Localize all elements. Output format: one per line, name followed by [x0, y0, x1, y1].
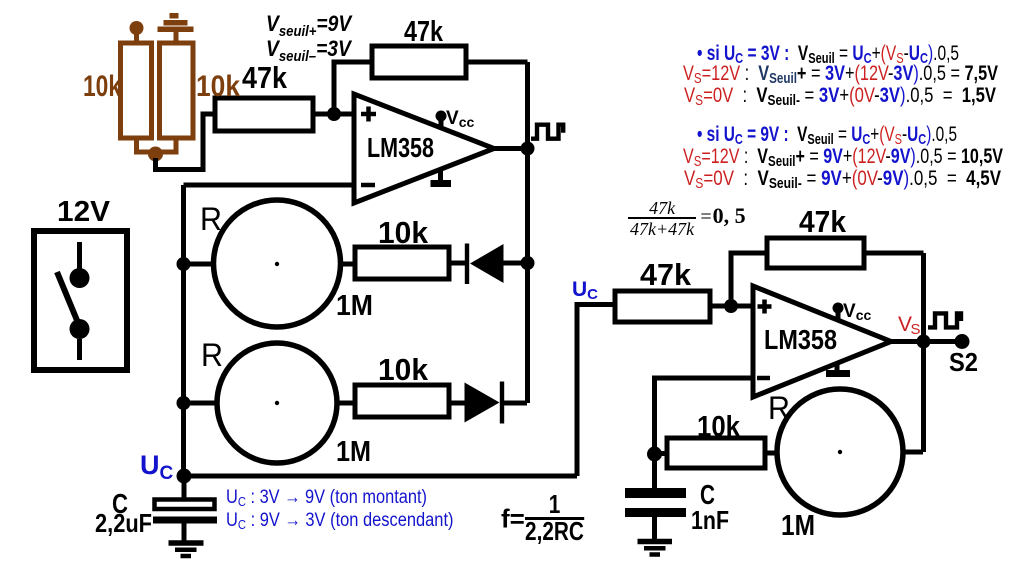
wire R6 to D1 — [449, 261, 467, 266]
svg-text:10k: 10k — [83, 70, 121, 103]
svg-text:10k: 10k — [697, 411, 741, 443]
wire R7 to R8 — [337, 401, 355, 406]
svg-text:UC: UC — [140, 450, 174, 484]
node at C2 top — [647, 447, 662, 462]
wire U2 output to S2 — [891, 339, 962, 344]
label Vseuil thresholds of U1 — [266, 11, 351, 61]
node U2 + input — [724, 299, 738, 313]
svg-text:47k: 47k — [640, 257, 692, 292]
svg-text:1nF: 1nF — [691, 505, 729, 535]
terminal S2 — [955, 334, 970, 349]
power symbol +12V on P2 — [158, 13, 194, 32]
U1 Vcc pin — [436, 111, 447, 129]
brown wire joining P1 and P2 bottoms — [134, 147, 179, 162]
capacitor C1 2,2uF — [153, 483, 217, 542]
resistor R10 47k (positive feedback) — [767, 238, 864, 268]
U1 ground pin — [431, 168, 452, 184]
formula 47k/(47k+47k)=0,5 — [628, 201, 746, 237]
svg-text:1M: 1M — [336, 436, 371, 468]
svg-text:Vcc: Vcc — [446, 108, 474, 130]
wire U2 - input down to node — [655, 378, 754, 454]
wire node to feedback resistor R4 — [334, 62, 372, 114]
wire R5 to R6 — [339, 262, 355, 267]
wire R9 to U2 + input — [710, 304, 753, 309]
svg-text:LM358: LM358 — [764, 324, 837, 355]
node at U2 output — [917, 335, 931, 349]
svg-text:R: R — [200, 201, 222, 237]
node left rail row1 — [177, 257, 191, 271]
resistor R9 47k — [615, 291, 710, 322]
output rail of U2 — [921, 253, 926, 452]
svg-text:2,2uF: 2,2uF — [95, 508, 152, 538]
wire rail to R7 — [184, 401, 218, 406]
potentiometer P1 10k (brown) — [121, 21, 152, 152]
svg-text:10k: 10k — [196, 70, 240, 103]
svg-text:LM358: LM358 — [367, 132, 434, 163]
potentiometer R5 1M — [214, 200, 341, 327]
svg-text:47k: 47k — [404, 16, 444, 48]
diode D2 — [449, 382, 527, 424]
svg-text:R: R — [201, 337, 223, 373]
node at U1 + input — [327, 107, 341, 121]
wire Uc bottom run — [184, 474, 577, 479]
potentiometer R7 1M — [217, 343, 337, 463]
square wave icon at U1 output — [531, 125, 563, 139]
resistor R11 10k — [667, 438, 765, 468]
wire node to R10 — [731, 253, 767, 306]
wire R3 to U1 + input — [313, 112, 354, 117]
svg-text:S2: S2 — [949, 347, 978, 377]
annotation ton montant / descendant (blue) — [226, 488, 427, 511]
wire U1 - input to left rail — [184, 183, 355, 188]
svg-text:1M: 1M — [781, 510, 815, 542]
wire Uc rising to R9 — [577, 305, 615, 477]
svg-text:R: R — [768, 390, 790, 426]
wire R12 to output rail — [903, 450, 923, 455]
formula block si Uc=3V (right top) — [697, 43, 959, 64]
node at U1 output — [521, 142, 535, 156]
wire node to R11 — [655, 451, 668, 456]
U2 Vcc pin — [833, 303, 844, 321]
svg-text:UC: UC — [572, 278, 598, 303]
wire U1 output to node — [494, 146, 527, 151]
svg-text:12V: 12V — [57, 196, 111, 228]
potentiometer R12 1M — [777, 389, 903, 515]
svg-text:47k: 47k — [242, 60, 288, 95]
12V switch box — [34, 231, 127, 370]
diode D1 — [467, 244, 527, 285]
formula f=1/(2,2RC) — [501, 495, 599, 542]
node left rail row2 — [177, 396, 191, 410]
svg-text:10k: 10k — [378, 352, 429, 387]
node Uc — [177, 469, 192, 484]
resistor R4 47k (positive feedback) — [372, 46, 466, 78]
resistor R6 10k — [355, 247, 449, 279]
svg-text:47k: 47k — [799, 204, 847, 239]
wire R10 to output rail — [864, 251, 924, 256]
capacitor C2 1nF — [625, 454, 686, 540]
output rail of U1 (vertical) — [525, 62, 530, 403]
wire rail to R5 — [184, 262, 216, 267]
square wave icon at U2 output — [928, 313, 961, 327]
formula block si Uc=9V — [697, 124, 957, 145]
node rail row1 — [521, 256, 535, 270]
svg-text:VS: VS — [898, 313, 921, 338]
U2 ground pin — [826, 362, 850, 374]
svg-text:Vcc: Vcc — [843, 301, 871, 323]
potentiometer P2 10k (brown) — [160, 31, 194, 152]
resistor R3 47k — [215, 98, 313, 131]
op-amp U1 LM358 — [354, 94, 494, 203]
ground below C1 — [169, 543, 204, 556]
wire R4 to U1 output rail — [466, 60, 528, 65]
svg-text:10k: 10k — [378, 215, 429, 250]
wire R11 to R12 — [765, 451, 777, 456]
ground below C2 — [638, 542, 673, 555]
wire from pots wiper to R3 — [156, 114, 216, 170]
left rail (vertical) — [181, 185, 186, 476]
op-amp U2 LM358 — [753, 286, 891, 397]
resistor R8 10k — [355, 385, 449, 417]
svg-text:1M: 1M — [336, 290, 373, 322]
